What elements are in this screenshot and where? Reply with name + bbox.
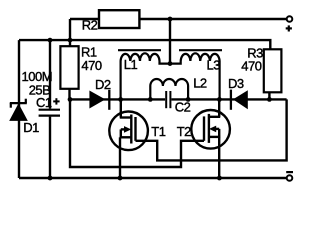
svg-text:C1: C1 xyxy=(36,95,52,110)
svg-text:L1: L1 xyxy=(124,57,138,72)
svg-text:D1: D1 xyxy=(23,120,39,135)
svg-text:D3: D3 xyxy=(228,76,244,91)
svg-text:T1: T1 xyxy=(151,124,165,139)
svg-text:D2: D2 xyxy=(95,77,111,92)
svg-text:L3: L3 xyxy=(207,57,221,72)
svg-text:C2: C2 xyxy=(175,100,191,115)
svg-text:R2: R2 xyxy=(82,17,98,32)
svg-text:R1: R1 xyxy=(81,44,97,59)
svg-text:470: 470 xyxy=(81,58,101,73)
svg-text:470: 470 xyxy=(241,58,261,73)
svg-text:L2: L2 xyxy=(193,76,207,91)
svg-text:T2: T2 xyxy=(177,124,191,139)
